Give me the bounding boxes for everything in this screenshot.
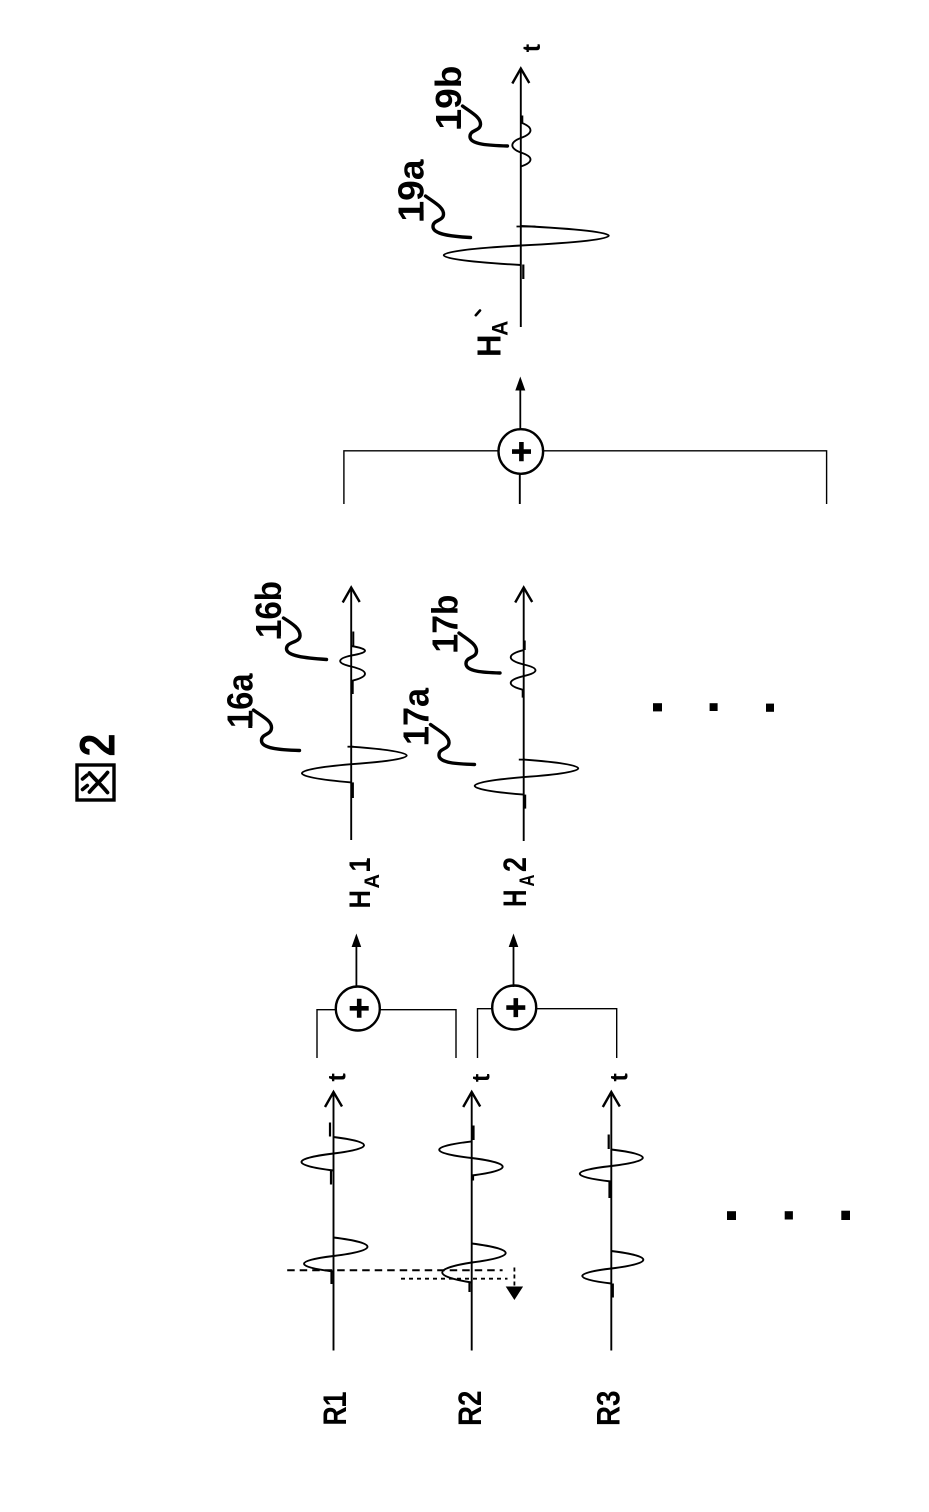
axis R2 line	[471, 1093, 473, 1351]
label H_A1 serif of digit 1	[367, 860, 371, 871]
axis H_A2 line	[523, 588, 525, 841]
adder 2 right input bracket (from R3)	[536, 1009, 617, 1058]
wave R1 late packet	[301, 1137, 364, 1171]
svg-text:t: t	[606, 1073, 634, 1082]
adder 2 output arrow line	[513, 945, 515, 987]
label 17b serif of digit 1	[454, 641, 458, 652]
label H_A' prime	[476, 311, 480, 316]
label 19a serif of digit 1	[420, 210, 424, 221]
wave 16b on H_A1 axis	[340, 646, 365, 681]
svg-text:H: H	[497, 890, 533, 908]
adder 2 output arrowhead	[509, 934, 519, 948]
axis H_A2 arrowhead	[515, 588, 532, 603]
adder 1 circle	[336, 987, 380, 1031]
label R1 serif of digit 1	[342, 1396, 346, 1407]
svg-text:t: t	[518, 43, 546, 52]
leader from 17a	[431, 725, 475, 765]
wave 16a end tail	[352, 782, 354, 798]
dashed delay arrow line	[513, 1268, 515, 1288]
svg-text:H: H	[470, 335, 507, 358]
svg-text:t: t	[468, 1073, 496, 1082]
leader from 16b	[284, 618, 327, 660]
wave 16a start tick	[348, 746, 354, 748]
svg-text:16b: 16b	[248, 581, 289, 638]
wave R1 early packet	[304, 1238, 367, 1272]
axis R1 arrowhead	[325, 1092, 342, 1107]
wave R2 late tail bottom	[472, 1176, 474, 1181]
svg-text:R1: R1	[317, 1392, 353, 1426]
wave R1 late tail bottom	[330, 1171, 332, 1185]
big adder left input bracket (from H_A1)	[344, 451, 499, 504]
wave R3 early packet	[582, 1251, 643, 1284]
wave R3 early tail bottom	[612, 1284, 614, 1298]
wave 16b tail bottom	[352, 681, 354, 694]
axis H_A' line	[520, 69, 522, 328]
label 16a serif of digit 1	[248, 717, 252, 729]
svg-text:H: H	[344, 890, 377, 909]
wave 19a end tail	[522, 265, 524, 280]
adder 2 circle	[492, 986, 536, 1030]
svg-text:A: A	[488, 321, 513, 336]
axis R1 line	[333, 1093, 335, 1351]
axis H_A1 arrowhead	[343, 588, 360, 603]
figure number kanji 図 (drawn glyph)	[77, 765, 114, 800]
svg-text:t: t	[324, 1073, 352, 1082]
svg-text:17b: 17b	[425, 595, 466, 653]
big adder circle	[499, 429, 544, 474]
adder 1 plus sign	[350, 999, 369, 1018]
axis R3 line	[610, 1093, 612, 1351]
svg-text:19a: 19a	[391, 159, 432, 222]
leader from 17b	[459, 633, 500, 673]
svg-text:1: 1	[344, 858, 377, 872]
wave 17b tail top	[524, 641, 526, 651]
adder 1 left input bracket (from R1)	[317, 1010, 336, 1058]
svg-text:2: 2	[497, 857, 533, 872]
axis R3 arrowhead	[603, 1092, 620, 1107]
big adder plus sign	[512, 442, 531, 461]
adder 1 output arrow line	[355, 945, 357, 988]
big adder output arrowhead	[515, 377, 525, 391]
wave R2 late tail top	[472, 1126, 474, 1141]
wave 17b tail bottom	[522, 690, 524, 698]
ellipsis dots (more H_A channels)	[653, 703, 774, 712]
adder 2 left input bracket (from R2)	[478, 1009, 493, 1058]
label 16b serif of digit 1	[277, 628, 281, 639]
svg-text:R3: R3	[591, 1391, 627, 1427]
dashed reference line through R2 early packet end	[401, 1278, 508, 1280]
wave R3 late tail bottom	[608, 1182, 610, 1199]
big adder output arrow line	[519, 389, 521, 430]
wave 19a on H_A' axis	[444, 226, 609, 265]
wave 19a start tick	[517, 226, 536, 228]
axis H_A' arrowhead	[512, 69, 529, 84]
svg-text:16a: 16a	[219, 673, 260, 728]
wave 17b on H_A2 axis	[511, 650, 536, 690]
wave 17a end tail	[523, 795, 526, 809]
wave 16a on H_A1 axis	[302, 747, 407, 783]
adder 1 output arrowhead	[352, 934, 362, 948]
wave R2 early tail bottom	[468, 1283, 470, 1293]
label 17a serif of digit 1	[424, 734, 428, 745]
svg-text:R2: R2	[452, 1391, 488, 1427]
wave R2 late packet	[439, 1141, 502, 1175]
big adder center input stub (from H_A2)	[519, 474, 521, 504]
wave 17a start tick	[519, 759, 525, 761]
dashed reference line through R1 early packet end	[287, 1269, 502, 1271]
svg-text:A: A	[361, 874, 384, 889]
label 19b serif of digit 1	[457, 118, 461, 129]
dashed delay arrowhead	[506, 1287, 523, 1301]
svg-text:2: 2	[70, 734, 126, 757]
wave R3 late packet	[580, 1150, 643, 1182]
axis R2 arrowhead	[463, 1092, 480, 1107]
svg-text:A: A	[516, 875, 539, 887]
wave 19b tail	[521, 116, 523, 123]
axis H_A1 line	[350, 588, 352, 840]
leader from 16a	[254, 710, 300, 751]
leader from 19b	[463, 106, 508, 146]
wave 17a on H_A2 axis	[475, 760, 579, 795]
svg-text:17a: 17a	[395, 687, 436, 745]
wave R1 early tail bottom	[330, 1272, 332, 1285]
wave R3 late tail top	[608, 1135, 610, 1150]
ellipsis dots (more R channels)	[727, 1211, 850, 1220]
adder 1 right input bracket (from R2)	[380, 1010, 456, 1058]
big adder right input bracket (from further channels)	[543, 451, 827, 504]
svg-text:19b: 19b	[428, 66, 469, 130]
wave 19b on H_A' axis	[512, 123, 530, 167]
wave R2 early packet	[442, 1244, 505, 1283]
wave R1 late tail top	[329, 1123, 331, 1137]
adder 2 plus sign	[506, 998, 525, 1017]
leader from 19a	[426, 196, 471, 238]
wave 16b tail top	[352, 632, 354, 646]
